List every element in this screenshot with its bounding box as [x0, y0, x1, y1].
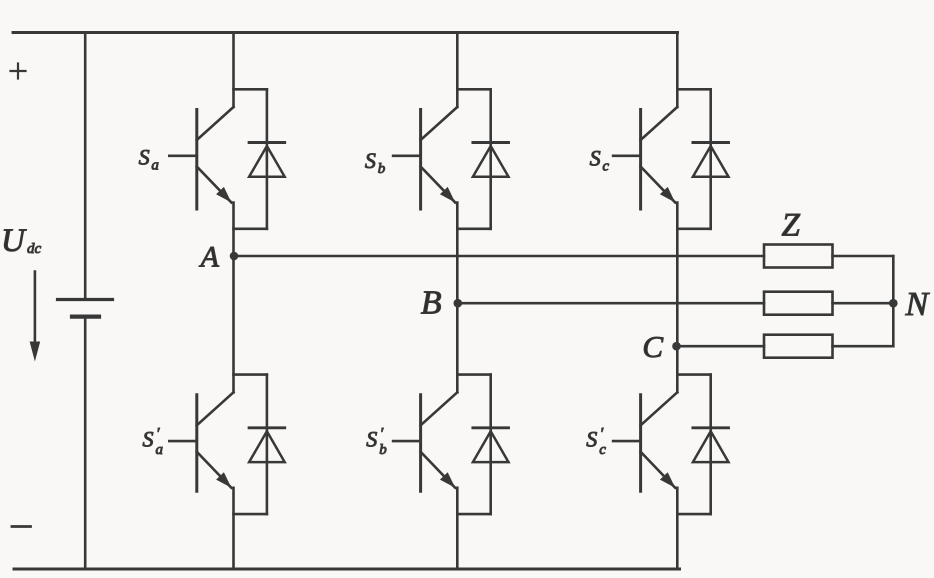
wire: leg C upper diode jog top — [677, 88, 710, 91]
wire: leg B collector drop from top rail — [456, 33, 459, 108]
svg-text:S: S — [143, 426, 154, 451]
transistor Sc' lower (IGBT switch) — [613, 392, 677, 491]
wire: leg B upper diode branch — [489, 89, 492, 229]
wire: leg A upper diode jog top — [234, 88, 267, 91]
svg-text:′: ′ — [156, 425, 160, 442]
wire: neutral bus vertical — [892, 256, 895, 346]
label Sa for transistor Sa upper — [139, 145, 159, 174]
svg-text:S: S — [586, 426, 597, 451]
wire: leg C collector drop from top rail — [676, 33, 679, 108]
wire: leg A lower diode jog bottom — [234, 513, 267, 516]
svg-text:C: C — [642, 329, 663, 364]
transistor Sb' lower (IGBT switch) — [393, 392, 457, 491]
wire: phase C load to neutral — [833, 345, 894, 348]
wire: positive DC bus (top rail) — [13, 31, 678, 34]
svg-text:S: S — [366, 426, 377, 451]
svg-text:N: N — [905, 286, 931, 323]
svg-text:c: c — [602, 159, 609, 175]
wire: leg C lower diode jog bottom — [677, 513, 710, 516]
wire: phase C output to load — [677, 345, 764, 348]
wire: leg C midpoint vertical — [676, 203, 679, 393]
wire: leg A upper diode jog bottom — [234, 228, 267, 231]
resistor Z phase B (load impedance box) — [764, 292, 833, 315]
node A (junction dot) — [230, 252, 239, 261]
diode VDb2 (freewheeling) — [473, 428, 509, 462]
transistor Sa' lower (IGBT switch) — [169, 392, 233, 491]
label Udc (DC voltage) — [1, 223, 42, 259]
label Sa&apos; for transistor Sa' lower — [143, 425, 164, 458]
wire: leg A lower diode jog top — [234, 373, 267, 376]
label Sb&apos; for transistor Sb' lower — [366, 425, 387, 458]
label Sb for transistor Sb upper — [365, 148, 386, 177]
svg-text:a: a — [151, 158, 159, 174]
wire: leg B emitter drop to bottom rail — [456, 488, 459, 569]
svg-text:A: A — [199, 241, 220, 274]
wire: leg C lower diode branch — [709, 375, 712, 514]
wire: leg C emitter drop to bottom rail — [676, 488, 679, 569]
wire: leg B upper diode jog bottom — [457, 228, 490, 231]
resistor Z phase C (load impedance box) — [764, 335, 833, 358]
wire: leg A midpoint vertical — [232, 203, 235, 393]
transistor Sc upper (IGBT switch) — [613, 107, 677, 209]
wire: leg A collector drop from top rail — [232, 33, 235, 108]
wire: leg B lower diode branch — [489, 375, 492, 514]
battery E (DC source U_dc) — [58, 300, 113, 317]
wire: phase B load to neutral — [833, 302, 894, 305]
diode VDb1 (freewheeling) — [473, 143, 509, 177]
label Sc&apos; for transistor Sc' lower — [586, 425, 606, 458]
svg-text:′: ′ — [380, 425, 384, 442]
svg-text:S: S — [590, 146, 601, 171]
svg-text:′: ′ — [600, 425, 604, 442]
wire: battery branch upper segment — [84, 33, 87, 300]
svg-text:dc: dc — [27, 241, 42, 257]
transistor Sa upper (IGBT switch) — [169, 107, 233, 209]
wire: phase A output to load — [234, 255, 765, 258]
node N (neutral junction dot) — [889, 299, 898, 308]
wire: negative DC bus (bottom rail) — [14, 568, 680, 571]
wire: leg B lower diode jog top — [457, 373, 490, 376]
polarity - sign — [12, 525, 31, 528]
wire: leg C upper diode branch — [709, 89, 712, 229]
svg-text:c: c — [599, 442, 606, 458]
node C (junction dot) — [672, 342, 681, 351]
wire: phase A load to neutral — [833, 255, 894, 258]
transistor Sb upper (IGBT switch) — [393, 107, 457, 209]
node B (junction dot) — [454, 299, 463, 308]
svg-text:a: a — [156, 442, 164, 458]
diode VDc1 (freewheeling) — [693, 143, 729, 177]
diode VDc2 (freewheeling) — [693, 428, 729, 462]
arrow: Udc direction (downward) — [30, 272, 41, 362]
svg-text:B: B — [421, 285, 442, 322]
svg-text:b: b — [379, 442, 387, 458]
wire: leg A upper diode branch — [266, 89, 269, 229]
diode VDa1 (freewheeling) — [249, 143, 285, 177]
wire: leg B lower diode jog bottom — [457, 513, 490, 516]
wire: leg A emitter drop to bottom rail — [232, 488, 235, 569]
wire: leg C lower diode jog top — [677, 373, 710, 376]
svg-text:Z: Z — [782, 208, 801, 244]
wire: leg C upper diode jog bottom — [677, 228, 710, 231]
polarity + sign — [11, 64, 26, 79]
svg-text:S: S — [365, 148, 376, 173]
wire: leg B midpoint vertical — [456, 203, 459, 393]
svg-text:U: U — [1, 223, 27, 259]
wire: phase B output to load — [457, 302, 764, 305]
diode VDa2 (freewheeling) — [249, 428, 285, 462]
wire: battery branch lower segment — [84, 317, 87, 569]
svg-text:b: b — [378, 161, 386, 177]
svg-text:S: S — [139, 145, 150, 170]
wire: leg B upper diode jog top — [457, 88, 490, 91]
resistor Z phase A (load impedance box) — [764, 245, 833, 268]
wire: leg A lower diode branch — [266, 375, 269, 514]
label Sc for transistor Sc upper — [590, 146, 610, 175]
